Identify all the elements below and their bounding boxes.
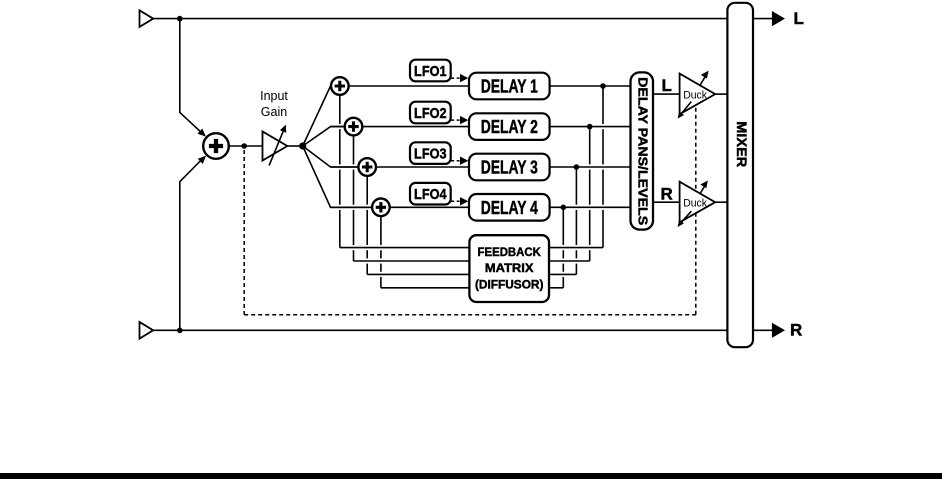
svg-text:L: L	[794, 9, 804, 28]
svg-text:Gain: Gain	[261, 105, 287, 119]
svg-text:DELAY 1: DELAY 1	[481, 77, 538, 97]
svg-text:(DIFFUSOR): (DIFFUSOR)	[475, 277, 544, 291]
svg-text:FEEDBACK: FEEDBACK	[478, 245, 542, 259]
svg-text:DELAY 2: DELAY 2	[481, 117, 538, 137]
svg-text:DELAY 4: DELAY 4	[481, 198, 538, 218]
svg-text:LFO4: LFO4	[414, 186, 447, 203]
svg-text:R: R	[661, 184, 673, 203]
svg-text:LFO1: LFO1	[414, 63, 447, 80]
svg-text:R: R	[790, 321, 802, 340]
svg-text:Duck: Duck	[683, 90, 707, 102]
svg-text:MATRIX: MATRIX	[485, 261, 534, 275]
svg-text:Input: Input	[260, 89, 288, 103]
svg-text:DELAY 3: DELAY 3	[481, 158, 538, 178]
svg-text:L: L	[662, 76, 672, 95]
svg-text:DELAY PANS/LEVELS: DELAY PANS/LEVELS	[635, 77, 650, 225]
svg-text:MIXER: MIXER	[734, 121, 749, 167]
svg-text:LFO2: LFO2	[414, 105, 447, 122]
svg-text:LFO3: LFO3	[414, 146, 447, 163]
svg-text:Duck: Duck	[683, 198, 707, 210]
